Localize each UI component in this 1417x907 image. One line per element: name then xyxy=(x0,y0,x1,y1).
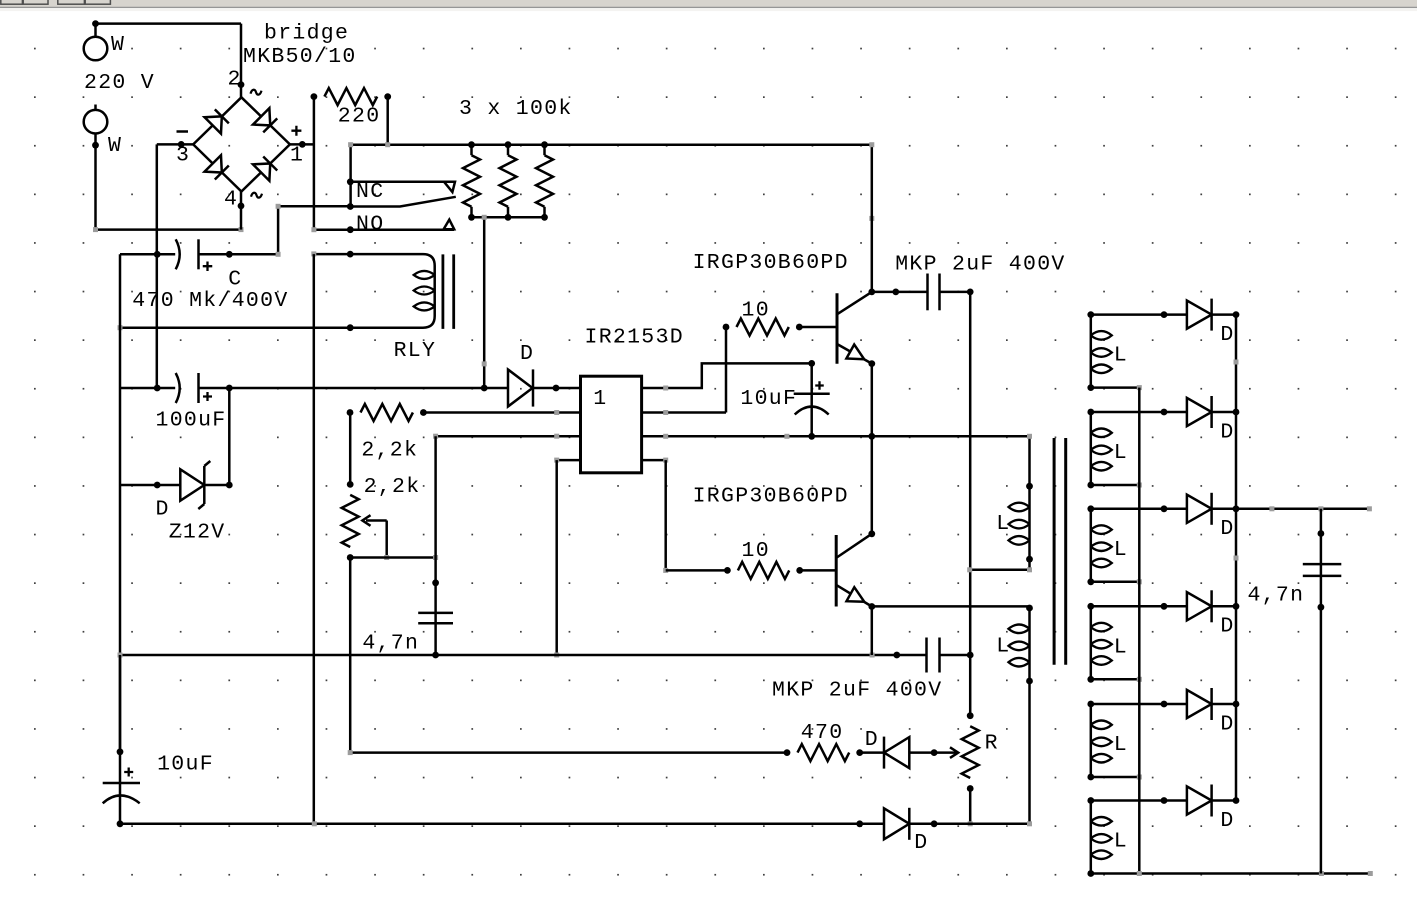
junction xyxy=(868,603,875,610)
wire xyxy=(240,24,243,98)
wire pin VS xyxy=(642,435,872,438)
pin xyxy=(1161,701,1168,708)
svg-text:RLY: RLY xyxy=(394,339,437,363)
svg-text:3: 3 xyxy=(176,144,190,168)
junction xyxy=(505,141,512,148)
pin xyxy=(796,567,803,574)
potentiometer 2,2k xyxy=(342,495,359,547)
svg-text:D: D xyxy=(1220,323,1234,347)
pin xyxy=(1026,605,1033,612)
inductor L primary 2 xyxy=(1028,608,1031,681)
svg-text:D: D xyxy=(1220,809,1234,833)
wire cathode bus xyxy=(1235,315,1238,801)
wire xyxy=(229,387,508,390)
pot wiper arrow xyxy=(366,519,387,522)
wire xyxy=(871,364,874,534)
pin xyxy=(1161,311,1168,318)
wire xyxy=(725,327,728,413)
wire secondary common xyxy=(1138,388,1141,874)
inductor L primary 1 xyxy=(1028,486,1031,559)
pin xyxy=(1233,797,1240,804)
svg-text:2,2k: 2,2k xyxy=(361,439,418,463)
pin xyxy=(1087,482,1094,489)
wire xyxy=(350,556,435,559)
pin xyxy=(432,579,439,586)
pin xyxy=(347,226,354,233)
wire bottom rail xyxy=(120,823,884,826)
diode D bootstrap feed xyxy=(508,370,533,407)
svg-text:bridge: bridge xyxy=(264,22,349,46)
wire xyxy=(313,254,316,824)
svg-text:2,2k: 2,2k xyxy=(364,475,421,499)
wire xyxy=(120,484,157,487)
pin xyxy=(796,324,803,331)
wire xyxy=(970,559,1029,570)
capacitor C 470Mk/400V xyxy=(157,253,175,256)
svg-text:C: C xyxy=(228,268,242,292)
terminal W2 xyxy=(84,110,108,134)
junction xyxy=(468,141,475,148)
wire xyxy=(434,436,437,557)
wire xyxy=(96,22,242,25)
potentiometer R xyxy=(962,726,979,778)
pin xyxy=(808,360,815,367)
wire NO xyxy=(314,228,454,231)
resistor 10 lower xyxy=(738,562,789,579)
junction xyxy=(868,289,875,296)
pin xyxy=(384,93,391,100)
contact NC arrow xyxy=(444,182,455,192)
wire xyxy=(423,411,580,414)
wire xyxy=(156,144,159,388)
capacitor 100uF xyxy=(157,387,175,390)
relay RLY coil xyxy=(314,254,435,328)
svg-text:1: 1 xyxy=(290,144,304,168)
contact NO arrow xyxy=(444,220,455,230)
wire pin3 left xyxy=(436,435,581,438)
node 3 xyxy=(178,141,185,148)
svg-text:1: 1 xyxy=(593,387,607,411)
junction xyxy=(347,324,354,331)
pot R wiper xyxy=(934,751,956,754)
svg-text:4: 4 xyxy=(224,188,238,212)
wire xyxy=(969,789,972,824)
wire xyxy=(94,145,97,229)
wire gnd row xyxy=(120,654,897,657)
wire xyxy=(664,460,667,570)
pin xyxy=(420,409,427,416)
bridge diode xyxy=(253,108,278,133)
wire xyxy=(1212,605,1236,608)
junction xyxy=(868,433,875,440)
pin xyxy=(1161,409,1168,416)
svg-text:L: L xyxy=(996,512,1010,536)
wire xyxy=(120,253,157,256)
wire NC xyxy=(350,181,446,184)
wire xyxy=(1212,508,1236,511)
wire xyxy=(1091,605,1187,608)
wire pin4 left xyxy=(557,459,581,462)
bridge diode xyxy=(253,155,278,180)
wire xyxy=(872,436,1030,486)
wire xyxy=(555,460,558,655)
pin xyxy=(226,385,233,392)
wire xyxy=(157,143,193,146)
junction xyxy=(347,554,354,561)
wire xyxy=(349,145,352,207)
junction xyxy=(347,178,354,185)
wire top bus xyxy=(351,143,872,146)
diode D secondary 3 xyxy=(1187,495,1212,523)
svg-text:3 x 100k: 3 x 100k xyxy=(459,97,573,121)
svg-text:220 V: 220 V xyxy=(84,71,155,95)
wire pin LO xyxy=(642,459,666,462)
pin xyxy=(1087,774,1094,781)
capacitor MKP 2uF 400V upper xyxy=(926,274,929,311)
wire xyxy=(909,751,934,754)
svg-text:10: 10 xyxy=(742,539,770,563)
svg-text:MKP 2uF 400V: MKP 2uF 400V xyxy=(895,252,1065,276)
pin xyxy=(1161,797,1168,804)
pin xyxy=(1087,409,1094,416)
plus 100uF xyxy=(203,392,212,401)
pin xyxy=(856,820,863,827)
wire xyxy=(96,228,242,231)
svg-text:D: D xyxy=(1220,420,1234,444)
plus 10uF bootstrap xyxy=(815,381,824,390)
node 1 xyxy=(299,141,306,148)
resistor 220 xyxy=(324,88,377,105)
resistor 2,2k xyxy=(361,404,413,421)
pin xyxy=(347,481,354,488)
wire xyxy=(120,326,423,329)
pin xyxy=(1318,530,1325,537)
zener diode D Z12V xyxy=(157,484,180,487)
svg-text:W: W xyxy=(108,134,122,158)
resistor 470 xyxy=(798,744,850,761)
plus cap C xyxy=(203,261,213,271)
svg-text:220: 220 xyxy=(338,105,381,129)
svg-text:IR2153D: IR2153D xyxy=(585,326,684,350)
terminal W1 xyxy=(84,37,108,61)
pin xyxy=(1161,603,1168,610)
svg-text:W: W xyxy=(111,33,125,57)
svg-text:D: D xyxy=(156,498,170,522)
svg-text:470: 470 xyxy=(801,721,844,745)
wire xyxy=(1212,313,1236,316)
pin xyxy=(967,712,974,719)
svg-text:L: L xyxy=(1114,344,1128,368)
pin xyxy=(226,251,233,258)
svg-text:L: L xyxy=(1114,441,1128,465)
inductor L secondary 6 xyxy=(1090,801,1093,874)
diode D secondary 4 xyxy=(1187,592,1212,620)
junction xyxy=(868,530,875,537)
diode D secondary 5 xyxy=(1187,690,1212,718)
svg-text:MKB50/10: MKB50/10 xyxy=(243,45,357,69)
minus node 3 xyxy=(177,130,189,133)
pin xyxy=(154,482,161,489)
wire xyxy=(1091,484,1140,487)
capacitor 4,7n xyxy=(418,612,453,615)
switch arm xyxy=(350,197,456,207)
svg-text:L: L xyxy=(1114,538,1128,562)
wire xyxy=(909,823,1030,826)
junction xyxy=(468,214,475,221)
svg-text:10uF: 10uF xyxy=(740,387,797,411)
wire pin HO xyxy=(642,411,726,414)
wire xyxy=(228,388,231,485)
wire xyxy=(472,216,545,219)
pin xyxy=(724,567,731,574)
wire xyxy=(872,606,1030,608)
wire xyxy=(483,217,486,388)
transformer core xyxy=(1053,438,1056,665)
relay core xyxy=(441,254,444,329)
diode D feedback xyxy=(884,737,909,768)
pin xyxy=(1233,603,1240,610)
svg-text:100uF: 100uF xyxy=(156,408,227,432)
node 2 xyxy=(238,81,245,88)
plus 10uF bottom xyxy=(124,768,133,777)
transistor Q1 IRGP30B60PD xyxy=(836,293,839,364)
wire xyxy=(1320,509,1323,874)
junction xyxy=(92,20,99,27)
wire xyxy=(872,291,928,294)
svg-text:D: D xyxy=(914,831,928,855)
pin xyxy=(1087,384,1094,391)
svg-text:L: L xyxy=(996,635,1010,659)
pin xyxy=(967,785,974,792)
svg-text:2: 2 xyxy=(228,68,242,92)
bridge outline xyxy=(193,97,290,191)
pin xyxy=(1087,311,1094,318)
wire xyxy=(799,326,837,329)
wire xyxy=(1091,776,1140,779)
svg-text:L: L xyxy=(1114,635,1128,659)
pin xyxy=(1026,678,1033,685)
svg-text:D: D xyxy=(1220,517,1234,541)
svg-text:D: D xyxy=(865,728,879,752)
wire xyxy=(1091,386,1140,389)
wire xyxy=(1091,799,1187,802)
inductor L secondary 5 xyxy=(1090,704,1093,777)
wire mid node xyxy=(969,292,972,716)
pin xyxy=(1233,311,1240,318)
inductor L secondary 4 xyxy=(1090,606,1093,679)
junction xyxy=(541,214,548,221)
diode D bottom xyxy=(884,808,909,839)
wire xyxy=(1091,678,1140,681)
junction xyxy=(967,289,974,296)
wire xyxy=(119,254,122,752)
pin xyxy=(1233,701,1240,708)
svg-text:10: 10 xyxy=(742,298,770,322)
wire xyxy=(434,558,437,656)
svg-text:10uF: 10uF xyxy=(157,752,214,776)
pin xyxy=(1087,505,1094,512)
wire xyxy=(350,751,787,754)
pin xyxy=(1233,505,1240,512)
wire xyxy=(119,655,122,752)
pin xyxy=(154,385,161,392)
pin xyxy=(347,409,354,416)
wire xyxy=(666,569,728,572)
junction xyxy=(505,214,512,221)
pin xyxy=(154,251,161,258)
wire xyxy=(800,569,837,572)
junction xyxy=(868,360,875,367)
wire xyxy=(386,97,389,145)
svg-text:L: L xyxy=(1114,733,1128,757)
pin xyxy=(892,289,899,296)
capacitor MKP 2uF 400V lower xyxy=(897,654,927,657)
junction xyxy=(117,820,124,827)
capacitor 10uF bootstrap xyxy=(810,363,813,436)
svg-text:IRGP30B60PD: IRGP30B60PD xyxy=(693,251,849,275)
tilde node 4 xyxy=(251,193,262,198)
wire xyxy=(860,751,884,754)
pin xyxy=(808,433,815,440)
pin xyxy=(311,93,318,100)
svg-text:4,7n: 4,7n xyxy=(362,631,419,655)
junction xyxy=(347,251,354,258)
wire xyxy=(871,145,874,292)
pin xyxy=(117,748,124,755)
pin xyxy=(1026,483,1033,490)
capacitor 4,7n output xyxy=(1303,563,1342,566)
wire xyxy=(1212,703,1236,706)
svg-text:NO: NO xyxy=(356,213,384,237)
wire bottom secondary rail xyxy=(1091,872,1371,875)
pin xyxy=(553,385,560,392)
bridge diode xyxy=(205,108,230,133)
svg-text:D: D xyxy=(1220,615,1234,639)
wire output xyxy=(1236,508,1369,511)
pin xyxy=(1087,603,1094,610)
capacitor 10uF bottom xyxy=(119,752,122,824)
pin xyxy=(1026,556,1033,563)
wire xyxy=(871,607,874,656)
pin xyxy=(931,820,938,827)
junction xyxy=(967,652,974,659)
pin xyxy=(1087,578,1094,585)
plus node 1 xyxy=(291,126,301,136)
diode D secondary 1 xyxy=(1187,301,1212,329)
wire xyxy=(1091,508,1187,511)
wire xyxy=(1091,313,1187,316)
junction xyxy=(347,203,354,210)
bridge diode xyxy=(205,155,230,180)
wire arm to C xyxy=(229,206,350,254)
junction xyxy=(481,385,488,392)
wire xyxy=(1091,411,1187,414)
svg-text:NC: NC xyxy=(356,180,384,204)
resistor 100k xyxy=(463,155,480,207)
svg-text:D: D xyxy=(1220,712,1234,736)
pin xyxy=(1161,505,1168,512)
IC U1 IR2153D box xyxy=(581,376,642,473)
tilde node 2 xyxy=(251,90,262,95)
wire xyxy=(240,192,243,230)
junction xyxy=(92,142,99,149)
pin xyxy=(1087,870,1094,877)
wire xyxy=(1091,703,1187,706)
pin xyxy=(1087,701,1094,708)
svg-text:Z12V: Z12V xyxy=(169,521,226,545)
inductor L secondary 3 xyxy=(1090,509,1093,582)
wire xyxy=(313,97,316,230)
resistor 100k xyxy=(500,155,517,207)
wire xyxy=(1212,411,1236,414)
svg-text:D: D xyxy=(520,342,534,366)
transistor Q2 IRGP30B60PD xyxy=(835,535,838,607)
svg-text:L: L xyxy=(1114,830,1128,854)
junction xyxy=(541,141,548,148)
resistor 10 upper xyxy=(737,319,789,336)
wire xyxy=(1212,799,1236,802)
pin xyxy=(784,749,791,756)
svg-text:R: R xyxy=(985,732,999,756)
diode D secondary 6 xyxy=(1187,786,1212,814)
svg-text:MKP 2uF 400V: MKP 2uF 400V xyxy=(772,679,942,703)
pin xyxy=(1087,797,1094,804)
inductor L secondary 1 xyxy=(1090,315,1093,388)
pin xyxy=(723,324,730,331)
pin xyxy=(856,749,863,756)
wire xyxy=(1028,681,1031,824)
pin xyxy=(931,749,938,756)
wire xyxy=(533,387,581,390)
node 4 xyxy=(238,203,245,210)
pin xyxy=(893,652,900,659)
pin xyxy=(1087,676,1094,683)
pin xyxy=(1318,604,1325,611)
pin xyxy=(432,652,439,659)
wire xyxy=(349,413,352,485)
wire xyxy=(120,387,157,390)
wire xyxy=(349,558,352,753)
pin xyxy=(1233,409,1240,416)
inductor L secondary 2 xyxy=(1090,412,1093,485)
svg-text:4,7n: 4,7n xyxy=(1248,584,1305,608)
wire xyxy=(290,143,314,146)
toolbar strip xyxy=(0,0,1417,7)
pin xyxy=(226,482,233,489)
wire xyxy=(1091,581,1140,584)
wire pin VB xyxy=(642,363,812,388)
diode D secondary 2 xyxy=(1187,398,1212,426)
svg-text:IRGP30B60PD: IRGP30B60PD xyxy=(693,484,849,508)
resistor 100k xyxy=(536,155,553,207)
